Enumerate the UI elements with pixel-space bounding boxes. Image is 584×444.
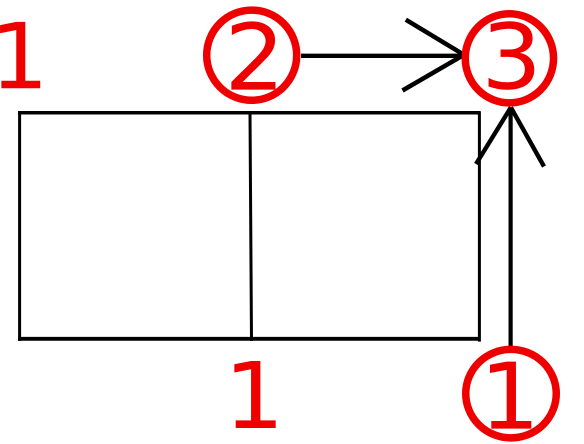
arrowhead upper leg (2 to 3) xyxy=(406,20,464,55)
digit 1 (in circle) xyxy=(490,362,531,429)
node label 1 (top-left, clipped at edge) xyxy=(0,22,40,88)
rectangle right edge xyxy=(478,111,481,341)
rectangle middle divider xyxy=(250,113,252,341)
node label 1 (bottom-center) xyxy=(234,361,275,428)
rectangle top edge xyxy=(18,111,480,115)
digit 3 xyxy=(489,21,535,90)
circle node 2 xyxy=(207,10,297,100)
circle node 1 (bottom-right) xyxy=(466,349,557,438)
digit 2 xyxy=(231,21,275,89)
arrow shaft 1 to 3 xyxy=(509,108,513,349)
arrow shaft 2 to 3 xyxy=(301,54,464,58)
rectangle bottom edge xyxy=(18,337,480,341)
arrowhead lower leg (2 to 3) xyxy=(403,55,465,91)
circle node 3 xyxy=(465,14,553,103)
arrowhead left leg (1 to 3) xyxy=(476,107,511,164)
rectangle left edge xyxy=(18,111,21,341)
arrowhead right leg (1 to 3) xyxy=(511,107,544,166)
